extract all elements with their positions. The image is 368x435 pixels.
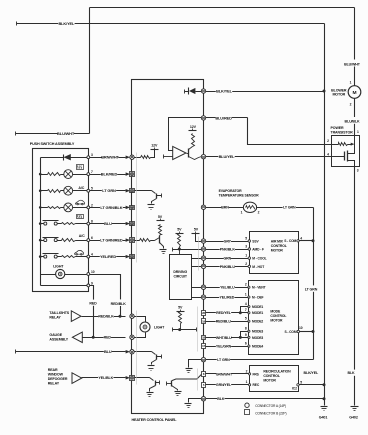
power 5V (GRY reference): [192, 228, 200, 234]
label RECIRCULATION CONTROL MOTOR: [263, 370, 291, 383]
inline connector (YEL/RED): [126, 255, 135, 259]
power transistor box: [332, 136, 360, 167]
diode D1 (panel supply): [185, 88, 202, 95]
wire GRY: [206, 241, 250, 243]
legend connector B: [245, 410, 287, 416]
label M - HOT: [252, 265, 264, 269]
wire pin9 RED drop: [90, 286, 94, 338]
power 5V (potentiometer): [177, 305, 185, 311]
resistor (lamp row 2): [41, 207, 64, 209]
connector pin GRN/YEL (5): [202, 383, 206, 388]
svg-text:1: 1: [246, 380, 248, 384]
label LT GRN/RED: [100, 237, 123, 242]
svg-text:MODE3: MODE3: [252, 330, 263, 334]
connector pin BLK: [201, 397, 205, 401]
inline connector (BLU): [126, 350, 135, 354]
connector pin BRN: [201, 205, 205, 209]
jumper MODE3 pins 8-9: [239, 332, 249, 339]
wire taillights RED/BLK: [82, 316, 126, 318]
inline connector (YEL/BLK): [126, 376, 135, 381]
resistor (lamp row 7): [41, 173, 64, 176]
wire BLU/RED to power transistor: [206, 118, 332, 145]
label GRN: [223, 256, 231, 261]
junction recirc BLK/YEL: [323, 383, 326, 386]
label RED/YEL: [216, 310, 232, 315]
wire lamp to pin 2: [73, 207, 87, 209]
connector pin RED/YEL (26): [202, 311, 206, 316]
wire mode S-COM: [300, 331, 314, 333]
svg-text:EVAPORATOR: EVAPORATOR: [219, 189, 243, 193]
pin 4 power transistor: [327, 152, 329, 156]
label LT GRN: [102, 188, 116, 193]
wire YEL/RED: [90, 256, 126, 258]
svg-text:M - COOL: M - COOL: [252, 257, 266, 261]
svg-text:M - VENT: M - VENT: [252, 286, 266, 290]
legend connector A: [245, 403, 286, 408]
label BLU/RED: [215, 115, 232, 120]
label LIGHT: [154, 325, 165, 329]
pin 5 recirc motor (IC2): [292, 381, 302, 391]
arrow into drain node: [348, 143, 355, 146]
resistor (lamp row 5): [41, 190, 64, 193]
lamp LIGHT (push assembly): [41, 269, 87, 278]
resistor R2 (12V pull-up): [192, 134, 195, 147]
icon recirculation car (row 4): [74, 250, 83, 255]
svg-text:RED: RED: [104, 336, 112, 340]
svg-text:S - COM: S - COM: [284, 239, 296, 243]
svg-text:DRIVING: DRIVING: [173, 270, 187, 274]
pin 6 push assembly: [87, 236, 93, 241]
svg-text:M - HOT: M - HOT: [252, 265, 264, 269]
wire YEL/BLU: [206, 287, 249, 289]
svg-text:A/C: A/C: [78, 186, 84, 190]
connector pin BLU/YEL: [201, 154, 205, 158]
pin 2 recirc motor (FRS): [246, 369, 260, 376]
jumper MODE1 pins 4-7: [239, 307, 249, 315]
svg-text:PUSH SWITCH ASSEMBLY: PUSH SWITCH ASSEMBLY: [30, 142, 75, 146]
blower motor M1: [348, 86, 361, 99]
inline connector (LT GRN/RED): [126, 238, 135, 243]
wire GRN/WHT: [206, 373, 250, 375]
transistor Q1 (FET channel+gate): [345, 151, 348, 162]
junction rail row y=174.1: [39, 173, 42, 176]
svg-text:GRN: GRN: [223, 256, 231, 260]
junction rail row y=190.7: [39, 189, 42, 192]
svg-text:TAILLIGHTS: TAILLIGHTS: [49, 311, 69, 315]
junction wiper: [178, 328, 181, 331]
svg-text:TRANSISTOR: TRANSISTOR: [331, 130, 354, 134]
heater control panel box: [132, 80, 204, 414]
recirculation control motor box: [250, 366, 299, 392]
svg-text:10: 10: [91, 270, 95, 274]
svg-text:6: 6: [245, 342, 247, 346]
svg-text:BLK/YEL: BLK/YEL: [304, 371, 319, 375]
wire PNK/BLU: [206, 266, 250, 268]
svg-text:YEL/BLU: YEL/BLU: [220, 286, 235, 290]
pin 4 air mix motor (S-COM): [284, 237, 302, 244]
transistor Q7 (rear-defog output): [167, 374, 202, 395]
wire top rail y=7 to blower: [90, 7, 355, 9]
svg-text:5: 5: [245, 236, 247, 240]
power 5V (PNK/BLK pull-up): [176, 228, 184, 234]
wire recirc to BLK/YEL bus: [300, 384, 325, 386]
svg-text:9: 9: [245, 333, 247, 337]
wire source to pin3: [348, 161, 355, 167]
label BRN/WHT: [101, 155, 119, 160]
junction S-COM air mix: [312, 239, 315, 242]
pin 8 mode motor (MODE3): [245, 327, 264, 334]
push switch assembly box: [33, 149, 89, 292]
svg-text:2: 2: [258, 210, 260, 214]
wire PNK/BLK internal: [173, 248, 202, 252]
inline connector (BLK/RED): [126, 172, 135, 177]
wire BRN to sensor: [206, 207, 244, 209]
pin 4 push assembly: [87, 253, 93, 258]
svg-text:RED: RED: [89, 302, 97, 306]
svg-text:5: 5: [245, 317, 247, 321]
label BLU: [104, 349, 112, 354]
resistor R3 (BRN/WHT pull-up): [135, 150, 155, 159]
wire driving out YEL/BLU: [192, 287, 202, 289]
svg-text:BRN/WHT: BRN/WHT: [101, 155, 119, 160]
svg-text:1: 1: [245, 254, 247, 258]
svg-text:BLU/WHT: BLU/WHT: [57, 131, 75, 136]
svg-text:A/C: A/C: [79, 234, 85, 238]
pin 3 air mix motor: [245, 244, 250, 250]
svg-text:TEMPERATURE SENSOR: TEMPERATURE SENSOR: [219, 193, 260, 197]
wire YEL/GRN: [206, 346, 249, 348]
svg-text:2: 2: [246, 369, 248, 373]
mode control motor box: [249, 281, 299, 355]
svg-text:HEATER CONTROL PANEL: HEATER CONTROL PANEL: [132, 418, 178, 422]
power 12V (BRN/WHT): [151, 143, 159, 149]
taillights relay K1: [71, 311, 81, 322]
pin 3 push assembly: [87, 153, 93, 158]
pin 2 air mix motor: [245, 262, 250, 268]
resistor (switch row 6): [62, 239, 87, 242]
resistor R7 (PNK/BLK pull-up): [178, 234, 181, 250]
label A/C (row 5): [78, 186, 84, 190]
wire LT GRN/BLK: [90, 207, 126, 209]
label YEL/BLU: [220, 285, 235, 290]
svg-text:1: 1: [357, 130, 359, 134]
svg-text:3: 3: [91, 153, 93, 157]
pin 1 air mix motor: [245, 254, 250, 260]
svg-text:1: 1: [350, 81, 352, 85]
connector pin GRN/WHT (8): [202, 372, 206, 377]
wire drain from pin1: [348, 136, 355, 154]
svg-text:S - COM: S - COM: [285, 330, 297, 334]
svg-text:2: 2: [91, 203, 93, 207]
svg-text:YEL/GRN: YEL/GRN: [216, 344, 232, 348]
pin 9 mode motor (MODE3): [245, 333, 264, 340]
label BLK (row): [217, 396, 225, 401]
label MODE CONTROL MOTOR: [270, 309, 286, 322]
connector pin PNK/BLU: [201, 264, 205, 268]
svg-text:CONTROL: CONTROL: [263, 374, 280, 378]
svg-text:BLK/RED: BLK/RED: [101, 171, 118, 176]
ground stub (BLK row): [185, 399, 202, 408]
svg-text:REC: REC: [253, 383, 260, 387]
svg-text:MODE: MODE: [270, 309, 281, 313]
svg-text:5V: 5V: [178, 305, 183, 309]
stub into driving circuit: [179, 250, 181, 255]
transistor Q5 (BLU input): [135, 352, 162, 371]
wire BLK/YEL feed (top horizontal): [17, 22, 325, 26]
wire blower drop x=354.5: [354, 8, 356, 86]
svg-text:5: 5: [300, 381, 302, 385]
connector pin BLK/YEL (panel right): [201, 89, 205, 93]
wire WHT/BLU: [206, 337, 249, 339]
connector pin PNK/BLK: [201, 247, 205, 251]
power 5V (cluster B): [157, 215, 165, 221]
wire BLU/YEL row to power transistor pin4: [206, 156, 345, 158]
svg-text:MOTOR: MOTOR: [271, 249, 284, 253]
inline connector (LT GRN/BLK): [126, 206, 135, 210]
label PUSH SWITCH ASSEMBLY: [30, 142, 75, 146]
svg-text:12V: 12V: [190, 125, 197, 129]
svg-text:BLU/YEL: BLU/YEL: [219, 154, 236, 159]
connector pin YEL/BLU: [201, 285, 205, 289]
resistor (switch row 4): [62, 256, 87, 258]
junction RED: [92, 336, 95, 339]
wire BLU/RED into op-amp: [169, 118, 202, 151]
svg-text:MODE4: MODE4: [252, 345, 263, 349]
wire LT GRN (sensor out): [257, 207, 314, 209]
svg-text:M - DEF: M - DEF: [252, 296, 264, 300]
label GRN/WHT: [216, 372, 233, 377]
svg-text:GAUGE: GAUGE: [49, 333, 62, 337]
wire lamp to pin 7: [73, 174, 87, 176]
wire pin3 to ground G402: [354, 167, 356, 406]
wire BLK/YEL bus x=324: [324, 24, 326, 406]
label RED (vertical): [88, 300, 99, 306]
junction rail row y=223.6: [39, 222, 42, 225]
label HEATER CONTROL PANEL: [132, 418, 178, 422]
wire YEL/RED: [206, 297, 249, 299]
label PNK/BLK: [220, 247, 236, 252]
wire BLU: [90, 223, 126, 225]
transistor Q3 (LT GRN input): [135, 191, 162, 210]
label BLK/RED: [101, 171, 118, 176]
svg-text:CIRCUIT: CIRCUIT: [174, 275, 188, 279]
icon rear-defogger (row 7): [77, 165, 84, 170]
label BLU/YEL: [218, 154, 235, 159]
label GRN/YEL: [216, 382, 232, 387]
label POWER TRANSISTOR: [331, 126, 354, 134]
wire RED/YEL: [206, 312, 249, 314]
wire GRN/YEL: [206, 384, 250, 386]
junction rail row y=207.4: [39, 206, 42, 209]
icon rear-defogger (row 8): [77, 215, 84, 219]
junction RED/BLK: [119, 315, 122, 318]
resistor R4 (LT GRN/RED series): [135, 239, 155, 242]
label REAR WINDOW DEFOGGER RELAY: [48, 368, 68, 386]
svg-text:BLU: BLU: [104, 221, 112, 226]
svg-text:3: 3: [357, 168, 359, 172]
wire defogger YEL/BLK: [82, 377, 126, 379]
wire GRN: [206, 258, 250, 260]
driving circuit box: [170, 255, 192, 300]
icon recirculation car (row 2): [75, 200, 84, 205]
label BLK (G402 drop): [346, 370, 357, 376]
svg-text:G402: G402: [349, 416, 358, 420]
pin 10 push assembly: [87, 270, 95, 275]
connector pin WHT/BLU (18): [202, 336, 206, 340]
power 12V (op-amp): [189, 125, 197, 131]
pin 2 sensor: [258, 210, 260, 214]
svg-text:SSV: SSV: [252, 239, 259, 243]
svg-text:MODE1: MODE1: [252, 311, 263, 315]
svg-text:GRY: GRY: [224, 239, 232, 243]
wire lamp to pin 5: [73, 190, 87, 192]
svg-text:AMD - F: AMD - F: [252, 247, 264, 251]
svg-text:12V: 12V: [151, 143, 158, 147]
svg-text:BLU: BLU: [104, 349, 112, 354]
svg-text:DEFOGGER: DEFOGGER: [48, 377, 68, 381]
wire pin9 row: [41, 285, 87, 287]
label BLK/YEL (top feed): [58, 21, 75, 26]
svg-text:FRS: FRS: [253, 372, 260, 376]
lamp LIGHT (panel illumination): [135, 317, 151, 338]
label PNK/BLU: [220, 264, 236, 269]
resistor R1 (power transistor gate): [332, 143, 348, 146]
label BRN: [221, 205, 229, 210]
inline connector (LT GRN): [126, 189, 135, 193]
wire BLK/RED: [90, 174, 126, 176]
label LT GRN (row): [217, 357, 230, 362]
label LT GRN/BLK: [100, 205, 123, 210]
svg-text:LT GRN/RED: LT GRN/RED: [100, 237, 123, 242]
svg-text:3: 3: [245, 244, 247, 248]
label EVAPORATOR TEMPERATURE SENSOR: [219, 189, 260, 197]
junction rail row y=240.1: [39, 239, 42, 242]
rear window defogger relay K2: [72, 373, 82, 384]
push switch (pin 6): [41, 238, 62, 242]
svg-text:AIR MIX: AIR MIX: [271, 239, 284, 243]
connector pin YEL/GRN (17): [202, 344, 206, 349]
evaporator temperature sensor TH1: [243, 202, 256, 212]
pin 7 push assembly: [87, 170, 93, 175]
svg-text:1: 1: [245, 293, 247, 297]
junction rail row y=256.6: [39, 255, 42, 258]
indicator lamp (pin 7): [64, 170, 73, 179]
input stub (reference): [164, 155, 173, 159]
wire driving out YEL/RED: [192, 297, 202, 299]
svg-text:LIGHT: LIGHT: [154, 325, 165, 329]
label WHT/BLU: [216, 335, 232, 340]
svg-text:ASSEMBLY: ASSEMBLY: [49, 338, 68, 342]
svg-text:WHT/BLU: WHT/BLU: [216, 336, 232, 340]
diode D2 (push assembly): [41, 154, 87, 161]
label RED/BLK (vertical): [110, 299, 126, 306]
svg-text:BLK: BLK: [347, 371, 355, 375]
internal supply rail: [40, 158, 42, 286]
svg-text:5V: 5V: [177, 228, 182, 232]
connector (RED/BLK into panel): [130, 314, 134, 318]
label BLOWER MOTOR: [331, 88, 347, 96]
resistor R5 (5V pull-up): [159, 225, 162, 235]
svg-text:MOTOR: MOTOR: [332, 93, 345, 97]
svg-text:2: 2: [245, 262, 247, 266]
svg-text:LT GRN: LT GRN: [217, 358, 230, 362]
pin 3 power transistor: [357, 168, 359, 172]
label DRIVING CIRCUIT: [173, 270, 188, 279]
svg-text:10: 10: [299, 326, 303, 330]
pin 4 mode motor (MODE1): [245, 302, 264, 309]
svg-text:RED/BLK: RED/BLK: [111, 302, 127, 306]
rail to pin 9: [40, 275, 42, 286]
svg-text:CONTROL: CONTROL: [270, 314, 286, 318]
label BLK/YEL (x=324 drop): [302, 370, 320, 376]
connector bracket (panel left): [136, 153, 138, 385]
wire BLK row: [206, 398, 325, 400]
svg-text:GRN/WHT: GRN/WHT: [216, 372, 233, 376]
svg-text:2: 2: [245, 283, 247, 287]
svg-text:LIGHT: LIGHT: [53, 264, 64, 268]
pin 1 sensor: [241, 210, 243, 214]
pin 10 mode motor (S-COM): [285, 326, 303, 334]
svg-text:4: 4: [300, 237, 302, 241]
junction BLK/YEL x=324: [323, 90, 326, 93]
pin 2 power transistor: [327, 139, 329, 143]
pin 1 recirc motor (REC): [246, 380, 260, 387]
wire driving out PNK/BLU: [192, 266, 202, 268]
svg-text:BLK/YEL: BLK/YEL: [216, 88, 233, 93]
svg-text:G401: G401: [319, 416, 328, 420]
svg-text:LT GRN: LT GRN: [102, 188, 116, 193]
svg-text:BLU/WHT: BLU/WHT: [344, 62, 361, 66]
pin 1 blower: [350, 81, 352, 85]
junction S-COM mode: [312, 330, 315, 333]
wire LT GRN/RED: [90, 240, 126, 242]
svg-text:5V: 5V: [194, 228, 199, 232]
label RED (row): [104, 335, 112, 340]
label BLK/YEL (row 91): [216, 88, 233, 93]
label SSV: [252, 239, 259, 243]
label RED/BLU: [216, 319, 232, 324]
wire BLU/WHT feed (left): [16, 132, 90, 136]
svg-text:YEL/BLK: YEL/BLK: [99, 376, 114, 380]
svg-text:9: 9: [91, 281, 93, 285]
label YEL/GRN: [216, 344, 232, 349]
svg-text:BLK: BLK: [217, 397, 225, 401]
pin 5 air mix motor: [245, 236, 250, 242]
ground stub (LT GRN row): [186, 360, 202, 373]
label RED/BLK (row): [98, 314, 114, 319]
wire GRY internal: [196, 234, 202, 242]
svg-text:RELAY: RELAY: [49, 315, 61, 319]
svg-text:7: 7: [91, 170, 93, 174]
label A/C (row 6): [79, 234, 85, 238]
indicator lamp (pin 5): [64, 186, 73, 195]
wire air mix S-COM: [300, 240, 314, 242]
connector pin GRY: [201, 239, 205, 243]
resistor (switch row 8): [62, 223, 87, 225]
svg-text:RELAY: RELAY: [48, 382, 60, 386]
pin 8 push assembly: [87, 220, 93, 225]
label LT GRN (S-COM bus): [303, 285, 320, 291]
svg-text:BLU/BLK: BLU/BLK: [345, 120, 360, 124]
svg-text:5V: 5V: [158, 215, 163, 219]
wire blower to power transistor: [354, 99, 356, 136]
svg-text:GRN/YEL: GRN/YEL: [216, 383, 232, 387]
wire PNK/BLK: [206, 249, 250, 251]
label BLU/BLK: [344, 117, 361, 124]
label BLU/WHT (blower drop): [343, 60, 361, 67]
svg-text:2: 2: [350, 103, 352, 107]
pin 2 mode motor (M - VENT): [245, 283, 266, 290]
